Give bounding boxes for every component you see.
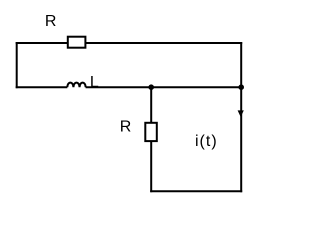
svg-text:R: R: [120, 118, 132, 135]
resistor R2: [145, 123, 157, 141]
wire: top horizontal (right of R1): [86, 42, 243, 44]
svg-text:L: L: [90, 74, 99, 91]
wire: right vertical: [240, 42, 242, 192]
svg-text:i(t): i(t): [195, 133, 218, 150]
wire: bottom horizontal: [150, 190, 242, 192]
wire: lower-left vertical (below R2): [150, 141, 152, 192]
wire: top horizontal (left of R1): [16, 42, 68, 44]
wire: lower-left vertical (above R2): [150, 87, 152, 123]
inductor L: [67, 83, 85, 88]
wire: middle horizontal (right of L): [86, 86, 243, 88]
arrow: current direction i(t): [238, 110, 244, 117]
svg-text:R: R: [45, 13, 57, 30]
wire: middle horizontal (left of L): [16, 86, 68, 88]
wire: left vertical: [16, 42, 18, 88]
node A (junction dot middle): [148, 84, 154, 90]
node B (junction dot right): [238, 84, 244, 90]
resistor R1: [68, 37, 86, 48]
